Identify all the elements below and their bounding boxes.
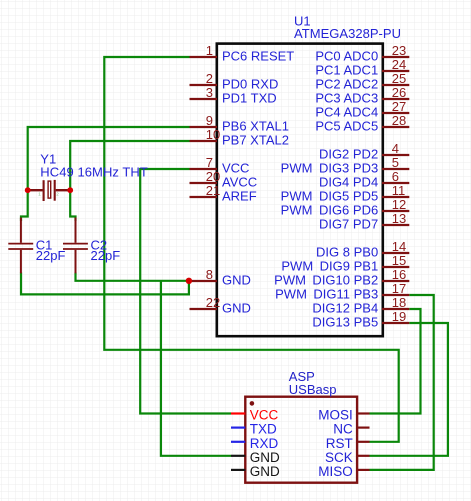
svg-text:PWM DIG5 PD5: PWM DIG5 PD5 (281, 189, 379, 204)
svg-text:7: 7 (206, 155, 213, 170)
junction node GND at U1 pin8 (186, 278, 192, 284)
svg-text:AVCC: AVCC (222, 175, 257, 190)
svg-text:23: 23 (392, 43, 406, 58)
svg-text:22pF: 22pF (91, 248, 121, 263)
pin 10 (PB7 XTAL2) of U1 (190, 127, 289, 148)
pin SCK (right) of USBasp (325, 450, 369, 465)
svg-text:8: 8 (206, 267, 213, 282)
svg-text:PWM DIG6 PD6: PWM DIG6 PD6 (281, 203, 379, 218)
pin 15 (PWM DIG9 PB1) of U1 (281, 253, 409, 274)
svg-text:PD1 TXD: PD1 TXD (222, 91, 277, 106)
svg-text:USBasp: USBasp (289, 382, 337, 397)
svg-text:ATMEGA328P-PU: ATMEGA328P-PU (294, 26, 401, 41)
pin 9 (PB6 XTAL1) of U1 (190, 113, 289, 134)
pin 1 marker dot of USBasp (250, 401, 255, 406)
pin 23 (PC0 ADC0) of U1 (315, 43, 409, 64)
svg-text:PB6 XTAL1: PB6 XTAL1 (222, 119, 289, 134)
pin 17 (PWM DIG11 PB3) of U1 (275, 281, 409, 302)
wire XTAL1 net: Y1 pin1 down to C1 (21, 190, 28, 221)
svg-text:VCC: VCC (250, 408, 279, 423)
wire GND net: C1 bottom up to junction at pin8 (21, 273, 189, 295)
svg-text:22pF: 22pF (36, 248, 66, 263)
wire GND net: down to USBasp GND pin (161, 281, 231, 456)
svg-text:16: 16 (392, 267, 406, 282)
svg-text:DIG4 PD4: DIG4 PD4 (319, 175, 378, 190)
svg-text:14: 14 (392, 239, 406, 254)
pin RST (right) of USBasp (326, 436, 370, 451)
svg-text:RST: RST (326, 436, 353, 451)
svg-text:26: 26 (392, 85, 406, 100)
svg-text:PC6 RESET: PC6 RESET (222, 49, 294, 64)
pin TXD (left) of USBasp (231, 422, 277, 437)
svg-text:20: 20 (206, 169, 220, 184)
pin VCC (left) of USBasp (231, 408, 279, 423)
svg-text:GND: GND (250, 464, 280, 479)
capacitor C2 22pF (63, 218, 88, 274)
svg-text:GND: GND (222, 301, 251, 316)
pin 22 (GND) of U1 (190, 295, 251, 316)
pin 13 (DIG7 PD7) of U1 (319, 211, 409, 232)
pin MOSI (right) of USBasp (318, 408, 369, 423)
svg-text:TXD: TXD (250, 422, 277, 437)
svg-text:1: 1 (206, 43, 213, 58)
svg-text:RXD: RXD (250, 436, 279, 451)
svg-text:DIG13 PB5: DIG13 PB5 (312, 315, 378, 330)
svg-text:27: 27 (392, 99, 406, 114)
svg-text:2: 2 (206, 71, 213, 86)
junction node at Y1 pin1 (25, 187, 31, 193)
svg-text:PC4 ADC4: PC4 ADC4 (315, 105, 378, 120)
svg-text:13: 13 (392, 211, 406, 226)
pin 28 (PC5 ADC5) of U1 (315, 113, 409, 134)
pin 2 (PD0 RXD) of U1 (190, 71, 279, 92)
wire XTAL1 net: U1 pin9 to Y1 pin1 (28, 127, 190, 190)
svg-text:PC1 ADC1: PC1 ADC1 (315, 63, 378, 78)
svg-text:DIG12 PB4: DIG12 PB4 (312, 301, 378, 316)
svg-text:PD0 RXD: PD0 RXD (222, 77, 278, 92)
svg-text:15: 15 (392, 253, 406, 268)
svg-text:PC5 ADC5: PC5 ADC5 (315, 119, 378, 134)
pin 18 (DIG12 PB4) of U1 (312, 295, 409, 316)
pin 4 (DIG2 PD2) of U1 (319, 141, 409, 162)
pin 8 (GND) of U1 (190, 267, 251, 288)
pin 5 (PWM DIG3 PD3) of U1 (281, 155, 410, 176)
svg-text:PWM DIG9 PB1: PWM DIG9 PB1 (281, 259, 378, 274)
svg-text:PC3 ADC3: PC3 ADC3 (315, 91, 378, 106)
svg-text:PWM DIG11 PB3: PWM DIG11 PB3 (275, 287, 378, 302)
svg-text:DIG2 PD2: DIG2 PD2 (319, 147, 378, 162)
svg-text:GND: GND (222, 273, 251, 288)
pin RXD (left) of USBasp (231, 436, 279, 451)
svg-text:HC49 16MHz THT: HC49 16MHz THT (40, 164, 148, 179)
svg-text:9: 9 (206, 113, 213, 128)
svg-text:5: 5 (392, 155, 399, 170)
svg-text:4: 4 (392, 141, 399, 156)
svg-text:12: 12 (392, 197, 406, 212)
pin 27 (PC4 ADC4) of U1 (315, 99, 409, 120)
wire VCC net: U1 pin7 to USBasp VCC (140, 169, 231, 414)
svg-text:PWM DIG10 PB2: PWM DIG10 PB2 (274, 273, 378, 288)
svg-text:MOSI: MOSI (318, 408, 353, 423)
svg-text:GND: GND (250, 450, 280, 465)
pin 19 (DIG13 PB5) of U1 (312, 309, 409, 330)
wire SCK net: U1 pin19 to USBasp SCK (370, 323, 448, 456)
wire XTAL2 net: Y1 pin2 down to C2 (70, 190, 75, 221)
svg-text:MISO: MISO (318, 464, 353, 479)
pin 25 (PC2 ADC2) of U1 (315, 71, 409, 92)
svg-text:PWM DIG3 PD3: PWM DIG3 PD3 (281, 161, 379, 176)
pin 26 (PC3 ADC3) of U1 (315, 85, 409, 106)
pin 7 (VCC) of U1 (190, 155, 250, 176)
svg-text:SCK: SCK (325, 450, 353, 465)
svg-text:3: 3 (206, 85, 213, 100)
svg-text:VCC: VCC (222, 161, 249, 176)
pin MISO (right) of USBasp (318, 464, 369, 479)
wire MISO net: U1 pin17 to USBasp MISO (370, 295, 434, 470)
svg-text:11: 11 (392, 183, 406, 198)
svg-text:21: 21 (206, 183, 220, 198)
wire GND net: C2 bottom to U1 pin8 junction (76, 273, 189, 281)
pin 20 (AVCC) of U1 (190, 169, 258, 190)
svg-text:NC: NC (333, 422, 353, 437)
svg-text:PC0 ADC0: PC0 ADC0 (315, 49, 378, 64)
pin 3 (PD1 TXD) of U1 (190, 85, 277, 106)
pin 16 (PWM DIG10 PB2) of U1 (274, 267, 409, 288)
crystal Y1 HC49 16MHz THT (28, 180, 70, 201)
pin 1 (PC6 RESET) of U1 (190, 43, 295, 64)
pin 24 (PC1 ADC1) of U1 (315, 57, 409, 78)
pin 21 (AREF) of U1 (190, 183, 257, 204)
svg-text:AREF: AREF (222, 189, 257, 204)
wire MOSI net: U1 pin18 to USBasp MOSI (370, 309, 421, 414)
svg-text:19: 19 (392, 309, 406, 324)
capacitor C1 22pF (8, 218, 33, 274)
wire RESET net: U1 pin1 to USBasp RST (104, 57, 398, 442)
svg-text:PB7 XTAL2: PB7 XTAL2 (222, 133, 289, 148)
wire XTAL2 net: U1 pin10 to Y1 pin2 (70, 141, 189, 190)
pin 6 (DIG4 PD4) of U1 (319, 169, 409, 190)
svg-text:PC2 ADC2: PC2 ADC2 (315, 77, 378, 92)
junction node at Y1 pin2 (67, 187, 73, 193)
svg-text:6: 6 (392, 169, 399, 184)
op-amp U1 body (ATMEGA328P-PU IC rectangle) (217, 44, 383, 337)
svg-text:24: 24 (392, 57, 406, 72)
pin GND (left) of USBasp (231, 450, 280, 465)
pin 14 (DIG 8 PB0) of U1 (316, 239, 409, 260)
svg-text:10: 10 (206, 127, 220, 142)
pin 12 (PWM DIG6 PD6) of U1 (281, 197, 410, 218)
svg-text:DIG7 PD7: DIG7 PD7 (319, 217, 378, 232)
svg-text:DIG 8 PB0: DIG 8 PB0 (316, 245, 378, 260)
svg-text:25: 25 (392, 71, 406, 86)
connector ASP USBasp body (245, 397, 357, 483)
svg-text:22: 22 (206, 295, 220, 310)
svg-text:18: 18 (392, 295, 406, 310)
pin 11 (PWM DIG5 PD5) of U1 (281, 183, 410, 204)
pin GND (left) of USBasp (231, 464, 280, 479)
svg-text:28: 28 (392, 113, 406, 128)
svg-text:17: 17 (392, 281, 406, 296)
pin NC (right) of USBasp (333, 422, 369, 437)
